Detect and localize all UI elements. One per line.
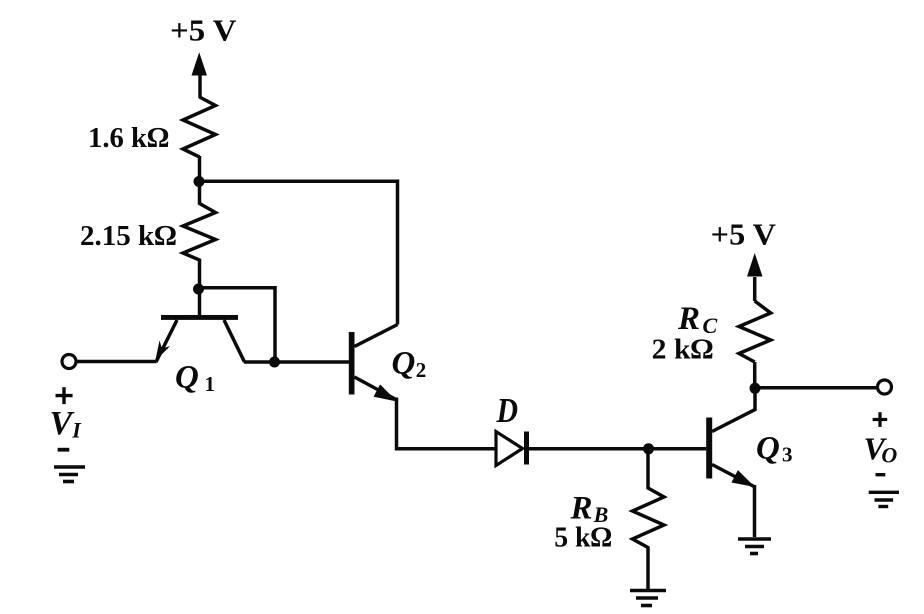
output terminal circle <box>878 380 892 394</box>
wire R1 bottom to node A <box>198 156 202 182</box>
wire Q2 emitter to diode anode <box>397 398 497 449</box>
label Q1 <box>175 359 215 396</box>
diode D cathode bar <box>524 432 529 465</box>
power +5V (right) arrow <box>747 253 763 301</box>
wire diode cathode to Q3 base <box>529 447 706 451</box>
minus sign of VI <box>58 448 70 452</box>
transistor Q2 emitter line <box>354 377 396 400</box>
svg-text:3: 3 <box>782 443 793 467</box>
transistor Q1 emitter arrow <box>155 340 170 360</box>
svg-text:V: V <box>50 405 75 442</box>
node E (Q3 collector / RC / output) <box>750 383 761 394</box>
transistor Q2 collector line <box>354 325 397 347</box>
label Q3 <box>756 431 793 467</box>
svg-text:+5 V: +5 V <box>170 13 237 48</box>
label RC <box>677 301 718 338</box>
svg-text:O: O <box>881 443 897 468</box>
wire node B to Q1 collector junction <box>199 288 276 362</box>
svg-text:Q: Q <box>756 431 780 467</box>
svg-text:Q: Q <box>392 346 416 382</box>
node A (junction of R1/R2/Q2 collector) <box>194 176 205 187</box>
wire node A to Q2 collector (top run) <box>199 181 398 324</box>
ground symbol under VI <box>54 467 85 482</box>
plus sign of VI <box>56 387 73 404</box>
transistor Q3 emitter arrow <box>731 470 755 487</box>
resistor R1 1.6k zigzag <box>183 97 216 157</box>
svg-text:R: R <box>677 301 700 337</box>
power +5V (left) arrow <box>192 52 208 98</box>
svg-text:D: D <box>496 391 518 430</box>
wire node B to Q1 base <box>198 289 202 316</box>
ground symbol under VO <box>869 492 899 506</box>
svg-text:2 kΩ: 2 kΩ <box>652 333 714 365</box>
svg-text:+5 V: +5 V <box>711 217 777 252</box>
svg-text:2: 2 <box>416 358 427 382</box>
node C (junction on Q1 collector wire) <box>269 357 280 368</box>
node B (junction of R2/Q1 base) <box>193 284 204 295</box>
resistor R2 2.15k zigzag <box>183 182 216 288</box>
svg-text:5 kΩ: 5 kΩ <box>554 522 612 554</box>
wire node E to output terminal <box>755 386 878 390</box>
svg-text:Q: Q <box>175 359 199 395</box>
wire Q3 emitter to ground <box>753 485 757 537</box>
transistor Q3 base bar <box>706 418 712 479</box>
label VO <box>864 431 898 468</box>
plus sign of VO <box>873 412 888 427</box>
ground symbol under RB <box>630 591 666 606</box>
svg-text:2.15 kΩ: 2.15 kΩ <box>80 220 177 252</box>
input terminal circle <box>62 355 76 369</box>
svg-text:I: I <box>71 417 82 442</box>
svg-text:1: 1 <box>205 372 216 396</box>
transistor Q1 collector line <box>224 320 245 362</box>
wire Q1 collector to Q2 base <box>244 360 349 364</box>
transistor Q1 emitter line <box>156 320 177 362</box>
wire input terminal to Q1 emitter <box>76 360 157 364</box>
ground symbol under Q3 emitter <box>738 539 771 554</box>
transistor Q1 base bar <box>161 315 238 320</box>
wire node E to RC <box>753 362 757 388</box>
svg-text:1.6 kΩ: 1.6 kΩ <box>88 122 169 154</box>
transistor Q2 emitter arrow <box>374 384 398 401</box>
label Q2 <box>392 346 427 383</box>
resistor RC 2k zigzag <box>739 301 771 362</box>
minus sign of VO <box>876 473 886 476</box>
resistor RB 5k zigzag <box>633 449 665 589</box>
label RB <box>570 491 609 528</box>
diode D triangle <box>496 432 523 466</box>
label VI <box>50 405 83 442</box>
node D (junction diode/RB/Q3 base) <box>643 443 654 454</box>
transistor Q3 collector line <box>712 389 755 432</box>
transistor Q3 emitter line <box>712 465 754 487</box>
transistor Q2 base bar <box>349 332 355 395</box>
